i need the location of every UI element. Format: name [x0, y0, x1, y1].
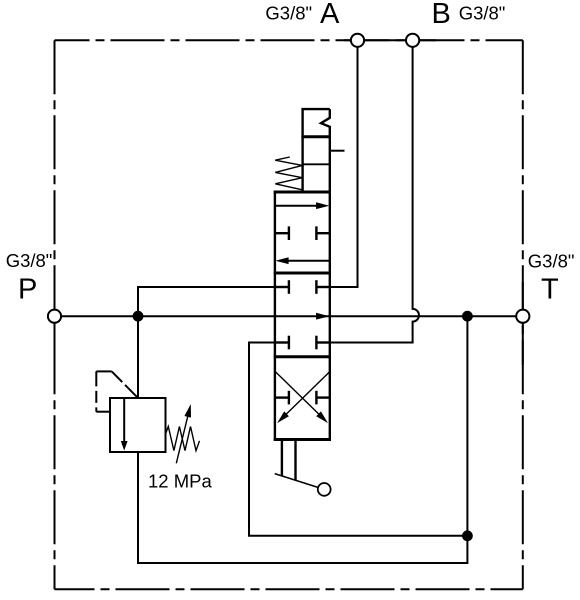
valve divider position 2/3 (thick) — [274, 355, 331, 358]
position 1 blocked port right — [316, 226, 329, 240]
relief valve adjustable spring — [166, 404, 200, 463]
svg-text:G3/8": G3/8" — [6, 250, 53, 271]
valve body top edge (thick) — [274, 191, 331, 194]
svg-text:A: A — [320, 0, 340, 30]
directional valve main body — [275, 192, 330, 440]
position 2 open-center arrow P to T — [316, 313, 329, 320]
junction dot P branch — [133, 311, 144, 322]
position 1 arrow right — [275, 202, 329, 209]
position 1 blocked port left — [275, 226, 289, 240]
position 1 arrow left — [275, 257, 329, 264]
wire valve lower-left port loop to T — [249, 343, 467, 536]
enclosure dashed border — [55, 40, 523, 589]
svg-text:P: P — [18, 274, 37, 306]
port A circle — [351, 34, 364, 47]
valve detent box with notch — [303, 109, 330, 192]
position 2 lower blocked port right — [316, 336, 329, 350]
position 2 blocked port left — [275, 280, 289, 294]
wire port A down to valve — [330, 47, 358, 287]
position 3 crossed arrow 1 — [275, 372, 328, 424]
lever arm — [275, 474, 325, 490]
border solid segment at port T — [522, 282, 524, 365]
wire port B down to valve with crossover hop — [330, 47, 419, 343]
wire relief valve drain return to T — [138, 316, 467, 563]
port T circle — [516, 310, 529, 323]
valve divider position 1/2 (thick) — [274, 272, 331, 275]
port P circle — [48, 310, 61, 323]
valve detent divider (thick) — [301, 135, 331, 138]
svg-text:G3/8": G3/8" — [265, 3, 312, 24]
junction dot bottom return — [462, 530, 473, 541]
border solid segment at port P — [54, 285, 56, 367]
valve body bottom edge (thick) — [274, 438, 331, 441]
wire relief valve inlet from P junction — [137, 316, 139, 398]
port B circle — [406, 34, 419, 47]
svg-text:G3/8": G3/8" — [528, 250, 575, 271]
wire valve upper-left port branch to P — [138, 287, 275, 316]
position 2 lower blocked port left — [275, 336, 289, 350]
position 2 blocked port right — [316, 280, 329, 294]
lever actuator stems — [282, 440, 296, 481]
relief valve pilot line (dashed) — [96, 370, 111, 372]
svg-text:G3/8": G3/8" — [459, 3, 506, 24]
valve return spring — [275, 157, 302, 190]
svg-text:T: T — [541, 274, 559, 306]
svg-text:12 MPa: 12 MPa — [148, 471, 212, 492]
relief valve internal flow arrow — [121, 398, 128, 451]
position 3 blocked port left — [275, 391, 289, 405]
position 3 blocked port right — [316, 391, 329, 405]
border solid segment at ports A B — [344, 39, 436, 41]
valve actuator divider — [303, 163, 330, 165]
svg-text:B: B — [432, 0, 451, 30]
wire P to T main line — [55, 315, 523, 317]
junction dot T line — [462, 311, 473, 322]
position 3 crossed arrow 2 — [277, 372, 330, 424]
relief valve RV1 body — [110, 398, 166, 452]
lever knob — [318, 483, 331, 496]
valve actuator side stub — [330, 150, 345, 152]
